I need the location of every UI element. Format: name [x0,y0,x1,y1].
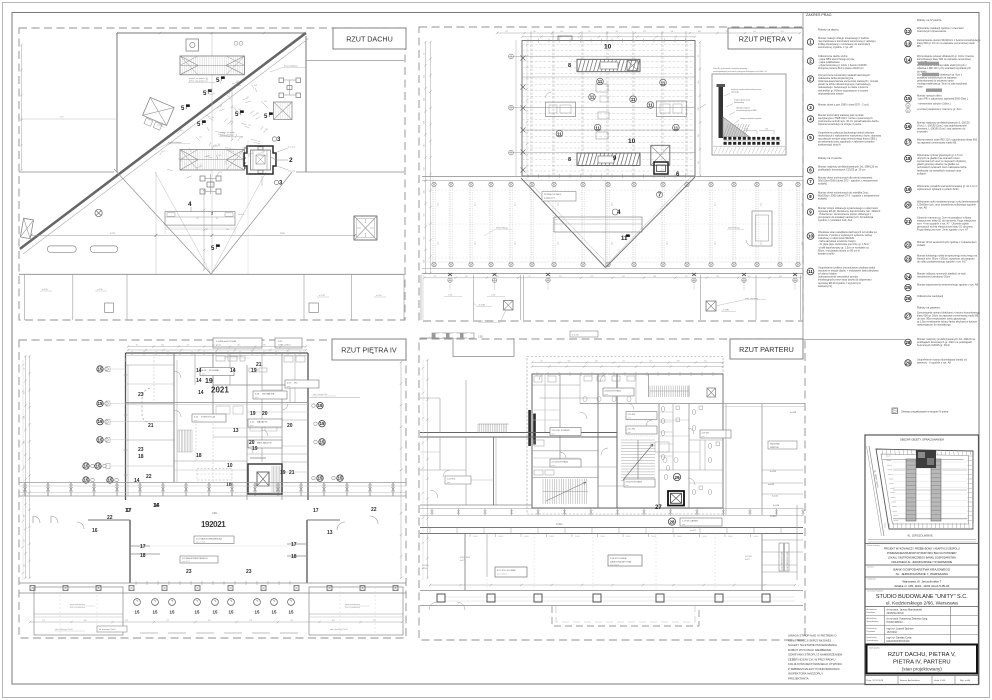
svg-text:N-400: N-400 [677,536,682,538]
svg-text:RZUT PARTERU: RZUT PARTERU [739,345,794,354]
svg-text:Oparcie konstrukcji na stropie: Oparcie konstrukcji na stropie V pietra [818,122,862,126]
svg-text:325: 325 [649,361,652,363]
svg-text:do sufitu podwieszanego zgodni: do sufitu podwieszanego zgodnie z rys. A… [917,260,967,264]
svg-text:219: 219 [595,361,598,363]
floor IV hall door arcs [33,516,40,523]
svg-text:18: 18 [906,156,911,161]
roof plan outline right [305,36,307,172]
detail A base hatch [714,148,785,154]
floor IV corridor band lines [19,482,406,484]
svg-text:N-400: N-400 [601,536,606,538]
svg-text:168: 168 [181,158,184,160]
floor V band horizontal dotted lines [424,189,801,191]
floor IV extra wall stubs [262,389,282,391]
svg-text:21: 21 [148,423,154,429]
svg-text:431: 431 [290,620,293,622]
roof lower band edge [19,273,404,275]
floor V right dim column [699,42,701,176]
svg-text:h=252: h=252 [770,471,777,473]
parter riser shafts dark [528,410,531,446]
svg-text:zmywalni.: zmywalni. [917,130,928,134]
svg-text:podkladach betonowych C20/25 g: podkladach betonowych C20/25 gr. 20 cm [818,168,865,172]
notes item 8 [807,193,813,199]
svg-text:Data: 12.11.2019: Data: 12.11.2019 [867,679,884,682]
floor IV top wall window ticks [131,351,133,355]
svg-text:PO/KK/085/04: PO/KK/085/04 [887,621,904,624]
svg-text:19: 19 [205,378,213,385]
dashed border ground floor region [419,339,805,640]
parter corridor columns ticks [429,528,431,534]
svg-text:Warszawa, Al. Jerozolimskie 7: Warszawa, Al. Jerozolimskie 7 [902,580,941,584]
svg-text:272: 272 [588,31,591,33]
svg-text:SKRZ. BUF.: SKRZ. BUF. [460,557,471,559]
floor IV corridor wall [173,353,175,482]
svg-text:378: 378 [591,276,594,278]
notes item 25 [905,284,911,290]
label box RZUT PIETRA IV [332,339,406,360]
svg-text:AL. JEROZOLIMSKIE: AL. JEROZOLIMSKIE [907,534,933,538]
svg-text:24,5: 24,5 [667,242,669,246]
roof chimney right [309,303,318,312]
svg-text:w 130: w 130 [42,289,48,291]
svg-text:Konstrukcja: Konstrukcja [867,636,878,639]
notes item 14 [905,56,912,63]
svg-text:N-400: N-400 [550,536,555,538]
svg-text:431: 431 [622,276,625,278]
detail A sloped profile [723,117,749,137]
floor V terrace strip columns [448,273,452,276]
svg-text:161: 161 [163,124,166,126]
svg-text:8: 8 [568,157,571,163]
floor IV bottom center dashes [140,632,300,634]
svg-text:94: 94 [258,141,260,143]
parter small scale bars mid gap [432,333,474,338]
svg-text:3.14 LOK. KOMERC.: 3.14 LOK. KOMERC. [552,430,571,432]
roof center axis [211,33,213,274]
svg-text:60: 60 [206,79,208,81]
svg-text:19: 19 [252,446,258,452]
svg-text:Roboty na dachu:: Roboty na dachu: [818,28,839,32]
roof plan outline top [117,32,305,34]
svg-text:SKRZYNIA gl.: SKRZYNIA gl. [496,227,508,230]
title block site cores [906,459,941,521]
svg-text:15: 15 [98,437,103,442]
svg-text:stolarki): stolarki) [818,197,827,201]
svg-text:N-400: N-400 [754,536,759,538]
svg-text:pow. wejscie: pow. wejscie [497,574,507,576]
svg-text:SOPKA: SOPKA [745,555,752,558]
svg-text:h=268: h=268 [790,412,797,414]
parter top right x-box [707,388,716,397]
svg-text:11: 11 [661,80,666,85]
notes item 22 [905,242,911,248]
parter left dim column 2 [427,360,429,578]
svg-text:11: 11 [674,125,679,130]
svg-text:obw. dachowy 70x70: obw. dachowy 70x70 [330,629,348,631]
svg-text:Sprawdzajacy: Sprawdzajacy [867,639,879,642]
parter core outline [532,374,723,508]
svg-text:wiatr. dachowy: wiatr. dachowy [479,320,492,323]
svg-text:OBSZAR OBJETY OPRACOWANIEM: OBSZAR OBJETY OPRACOWANIEM [900,438,944,442]
parter left stair hatch [478,424,507,433]
svg-text:13: 13 [327,530,333,536]
svg-text:14: 14 [134,478,140,484]
svg-text:10: 10 [604,44,612,51]
floor IV left dim columns [25,356,27,578]
floor IV hall label box [194,536,234,544]
notes item 20 [905,202,911,208]
svg-text:okna nad dachem: okna nad dachem [345,604,360,606]
svg-text:79: 79 [200,165,202,167]
svg-text:590: 590 [753,31,756,33]
svg-text:N-400: N-400 [652,536,657,538]
notes item 16 [905,123,911,129]
svg-text:164: 164 [698,81,700,84]
svg-text:15: 15 [320,421,325,426]
svg-text:432: 432 [424,167,426,170]
svg-text:11: 11 [595,125,600,130]
svg-text:24,5: 24,5 [761,203,763,207]
parter toilet stalls [672,404,674,471]
svg-text:ZAKRES PRAC:: ZAKRES PRAC: [806,13,832,17]
roof dim marks center cluster [247,140,249,274]
svg-text:z warstwicego krycia SBS: z warstwicego krycia SBS [736,109,757,112]
floor IV circled15 bottom rows [134,599,141,606]
svg-text:2.WC MEDIUM F. BOK: 2.WC MEDIUM F. BOK [781,551,783,570]
svg-text:dr inz.arch. Janusz Marchwinsk: dr inz.arch. Janusz Marchwinski [887,608,923,611]
roof diagonal parallel line [23,39,309,255]
svg-text:N-400: N-400 [703,536,708,538]
roof left dim line [19,118,117,120]
svg-text:113: 113 [540,361,543,363]
svg-text:mgr inz. Damian Cyrta: mgr inz. Damian Cyrta [887,636,912,639]
svg-text:101: 101 [250,153,253,155]
svg-text:18: 18 [138,454,144,460]
title block bottom row [865,675,979,677]
svg-text:11: 11 [590,95,595,100]
svg-text:192021: 192021 [201,520,226,529]
svg-text:KOLIZJI PROJEKTOWANEGO OTWORU: KOLIZJI PROJEKTOWANEGO OTWORU [788,662,842,666]
floor V strong beam lines [522,55,695,57]
svg-text:15: 15 [272,610,277,615]
svg-text:73: 73 [220,105,222,107]
svg-text:365: 365 [698,161,700,164]
svg-text:pow.: pow. [255,397,259,399]
svg-text:80x180cm, EI60 (drzwi D7 II -: 80x180cm, EI60 (drzwi D7 II - zgodnie z … [818,194,879,198]
floor V beam hatched upper [577,59,640,71]
svg-text:17: 17 [291,542,297,548]
parter left thick wall [420,432,532,434]
svg-text:20: 20 [287,423,293,429]
svg-text:mgr inz. Leszek Tachner: mgr inz. Leszek Tachner [887,627,914,630]
svg-text:272: 272 [528,276,531,278]
svg-text:2': 2' [809,77,812,82]
svg-text:gr.plyty gorne: gr.plyty gorne [544,197,555,200]
parter rotated label boxes right [779,543,784,571]
parter core top window ticks [536,372,538,376]
roof chimney left [105,303,114,312]
parter canopy dashed [552,606,699,626]
svg-text:14: 14 [230,368,236,374]
svg-text:STREFA PODZIALU: STREFA PODZIALU [544,193,562,196]
roof main diagonal expansion joint [20,33,306,249]
svg-text:2.K05 KORYTARZ: 2.K05 KORYTARZ [626,480,643,483]
svg-text:590: 590 [716,276,719,278]
title block project row [865,543,979,545]
floor V circled 11 markers [597,78,604,85]
roof center vertical dims [203,190,205,270]
svg-text:26: 26 [906,296,911,301]
svg-text:17: 17 [140,544,146,550]
notes item 27 [905,313,911,319]
parter hall grid dashed verticals [486,534,488,591]
title block site dark block [916,450,936,468]
svg-text:24: 24 [906,274,911,279]
svg-text:ZMYWALNIA: ZMYWALNIA [262,392,275,395]
svg-text:25: 25 [906,285,911,290]
svg-text:20: 20 [262,411,268,417]
svg-text:Obszary projektowane w stropie: Obszary projektowane w stropie IV pietra [901,410,949,414]
svg-text:Dasz 1: Dasz 1 [238,214,245,216]
parter columns band above corridor [420,508,803,510]
parter small fixtures right wing [725,404,727,515]
floor V bottom dim row [424,277,801,279]
svg-text:Roboty na IV pietrze:: Roboty na IV pietrze: [917,18,942,22]
floor IV circled15 right side [317,402,323,408]
svg-text:24,5: 24,5 [475,203,477,207]
svg-text:231: 231 [698,107,700,110]
svg-text:27: 27 [655,505,662,511]
svg-text:18: 18 [291,554,297,560]
notes item 19 [905,186,911,192]
svg-text:87: 87 [266,129,268,131]
svg-text:odprowadzania stropin: odprowadzania stropin [818,91,844,95]
svg-text:Sprawdzajacy: Sprawdzajacy [867,620,879,623]
svg-text:h=411: h=411 [556,523,563,526]
title block inwestor row [865,564,979,566]
floor IV bottom dim row [30,621,402,623]
svg-text:633: 633 [24,564,26,567]
svg-text:499: 499 [424,190,426,193]
parter stair main [621,440,655,481]
svg-text:24,5: 24,5 [612,242,614,246]
floor IV columns row [19,582,406,584]
svg-text:h=411: h=411 [770,515,777,518]
notes item 28 [905,339,911,345]
svg-text:CML: CML [212,511,218,515]
parter room labels [550,428,581,436]
floor IV dashed room zone [197,469,232,481]
svg-text:w 130: w 130 [319,295,325,297]
svg-text:wyc. wentylacji fi1x: wyc. wentylacji fi1x [225,355,242,358]
parter door arcs bottom [429,602,437,610]
floor V room right mid [656,101,686,117]
svg-text:484: 484 [698,31,701,33]
svg-text:169: 169 [230,121,233,123]
svg-text:BANK GOSPODARSTWA KRAJOWEGO: BANK GOSPODARSTWA KRAJOWEGO [893,568,950,572]
svg-text:23: 23 [138,447,144,453]
svg-text:16: 16 [906,124,911,129]
floor IV left window ticks [106,367,110,372]
floor IV hall bottom ticks [135,581,137,585]
svg-text:11: 11 [598,79,603,84]
svg-text:22: 22 [146,474,152,480]
svg-text:24,5: 24,5 [558,242,560,246]
roof lower band dividers [24,274,26,320]
parter left rooms [493,437,495,505]
svg-text:N-400: N-400 [575,536,580,538]
svg-text:z rys. A8: z rys. A8 [917,206,927,210]
svg-text:24,5: 24,5 [515,203,517,207]
svg-text:pow. 43,2: pow. 43,2 [182,561,190,563]
svg-text:DYSPOZYCJA: DYSPOZYCJA [201,415,215,418]
svg-text:10: 10 [227,463,233,469]
svg-text:N-400: N-400 [626,536,631,538]
svg-text:11: 11 [648,103,653,108]
parter top dim rows [532,362,723,364]
svg-text:ROBOT WYKONAC NIEZBEDNE: ROBOT WYKONAC NIEZBEDNE [788,648,831,652]
svg-text:21: 21 [906,219,911,224]
svg-text:15: 15 [153,610,158,615]
svg-text:166: 166 [567,361,570,363]
svg-text:stalowego: stalowego [731,91,739,94]
svg-text:166: 166 [84,620,87,622]
floor V lift shaft right [651,145,670,165]
roof fan cluster upper right [279,78,301,98]
svg-text:pow. 174,3: pow. 174,3 [196,542,205,544]
roof terrace edge right [296,171,404,173]
svg-text:155: 155 [246,97,249,99]
floor V marker 11 flag [621,234,630,242]
svg-text:499: 499 [24,515,26,518]
roof machine room ticks [244,147,246,149]
parter stair upper dotted zone [625,418,655,436]
svg-text:134: 134 [180,130,183,132]
svg-text:10: 10 [808,234,813,239]
svg-text:86: 86 [218,144,220,146]
svg-text:97: 97 [698,55,700,57]
svg-text:219: 219 [125,620,128,622]
floor V wall column marks [521,56,526,61]
svg-text:4 m od 2: 4 m od 2 [288,171,295,173]
svg-text:162: 162 [238,109,241,111]
svg-text:142: 142 [232,149,235,151]
svg-text:2.12 WC: 2.12 WC [628,428,636,430]
roof valley V line outer [114,169,292,274]
svg-text:2: 2 [289,157,293,164]
parter left dim vertical [422,360,424,580]
svg-text:pow.: pow. [552,465,556,467]
svg-text:samonosnej, zgodnie z rys. A8: samonosnej, zgodnie z rys. A8 [818,45,853,49]
svg-text:Detal A - polaczenie urzadzen: Detal A - polaczenie urzadzen nowego [713,67,748,70]
svg-text:120: 120 [219,172,222,174]
svg-text:14: 14 [906,57,911,62]
detail A profile bar [719,86,724,138]
svg-text:Projektant: Projektant [867,630,876,633]
floor IV right dim column [400,362,402,578]
floor V platform center [554,217,642,232]
svg-text:(stan projektowany): (stan projektowany) [902,667,943,672]
svg-text:N-400: N-400 [524,536,529,538]
svg-text:11: 11 [631,97,636,102]
dashed border floor IV region [19,340,406,638]
svg-text:23: 23 [246,569,252,575]
svg-text:378: 378 [643,31,646,33]
svg-text:484: 484 [653,276,656,278]
notes column bottom line [803,339,905,341]
detail A insulation dashes [724,137,782,140]
svg-text:Rys. nr A4: Rys. nr A4 [960,679,971,682]
svg-text:13: 13 [906,41,911,46]
notes item 24 [905,274,911,280]
floor IV left wall window ticks [125,358,127,362]
notes item 7 [807,178,813,184]
svg-text:272: 272 [166,620,169,622]
svg-text:pow.: pow. [552,433,556,435]
svg-text:12: 12 [906,29,911,34]
svg-text:N-400: N-400 [499,536,504,538]
parter hall center label [608,555,642,566]
svg-text:laminowany: laminowany [734,102,744,104]
svg-text:2.10 WC: 2.10 WC [628,414,636,416]
svg-text:kazdym profilu: kazdym profilu [818,251,835,255]
roof left edge dim line [21,45,23,170]
roof dim vertical [155,172,157,274]
svg-text:100: 100 [745,129,748,131]
floor IV circled15 left column [97,366,103,372]
roof access platform [165,212,235,226]
svg-text:157: 157 [205,229,208,231]
floor IV small box bottom [97,626,127,632]
floor V terrace skylight right [706,301,716,311]
svg-text:97: 97 [24,368,26,370]
svg-text:trasa kablowa: trasa kablowa [284,65,298,68]
svg-text:90x100cm EI60 (drzwi D72 - zgo: 90x100cm EI60 (drzwi D72 - zgodnie z zes… [818,179,878,183]
parter core interior horizontals [532,384,580,386]
svg-text:141: 141 [262,151,265,153]
svg-text:Montaz drzwi wewnetrznych zgod: Montaz drzwi wewnetrznych zgodnie z zest… [917,240,977,244]
floor IV stair elevator core [248,464,282,494]
svg-text:Tytul rysunku:: Tytul rysunku: [869,647,881,650]
svg-text:14: 14 [153,503,159,509]
svg-text:8.07 ZOK. GLOWNE: 8.07 ZOK. GLOWNE [497,570,516,572]
svg-text:80: 80 [212,117,214,119]
svg-text:566: 566 [24,539,26,542]
svg-text:skala 1:100: skala 1:100 [934,680,946,682]
svg-text:378: 378 [677,361,680,363]
svg-text:24,5: 24,5 [715,203,717,207]
parter right wall bottom [796,505,798,580]
svg-text:325: 325 [237,345,240,347]
floor IV left dim line [22,360,24,580]
svg-text:29: 29 [674,475,680,480]
svg-text:484: 484 [332,620,335,622]
svg-text:643: 643 [748,276,751,278]
notes item 21 [905,218,911,224]
svg-text:23: 23 [906,256,911,261]
svg-text:h=248: h=248 [422,568,427,570]
floor V left dim columns [425,42,427,273]
title block drawing title box [867,645,978,674]
svg-text:betonowych C20/25 gr. 20cm: betonowych C20/25 gr. 20cm [917,343,950,347]
svg-text:298: 298 [698,134,700,137]
svg-text:2xRM+gTN: 2xRM+gTN [278,345,289,347]
svg-text:272: 272 [212,345,215,347]
svg-text:branzowymi opracowania.: branzowymi opracowania. [917,29,947,33]
svg-text:PROJEKTANTA: PROJEKTANTA [788,676,809,680]
svg-text:pow.: pow. [626,485,630,487]
svg-text:24,5: 24,5 [515,242,517,246]
